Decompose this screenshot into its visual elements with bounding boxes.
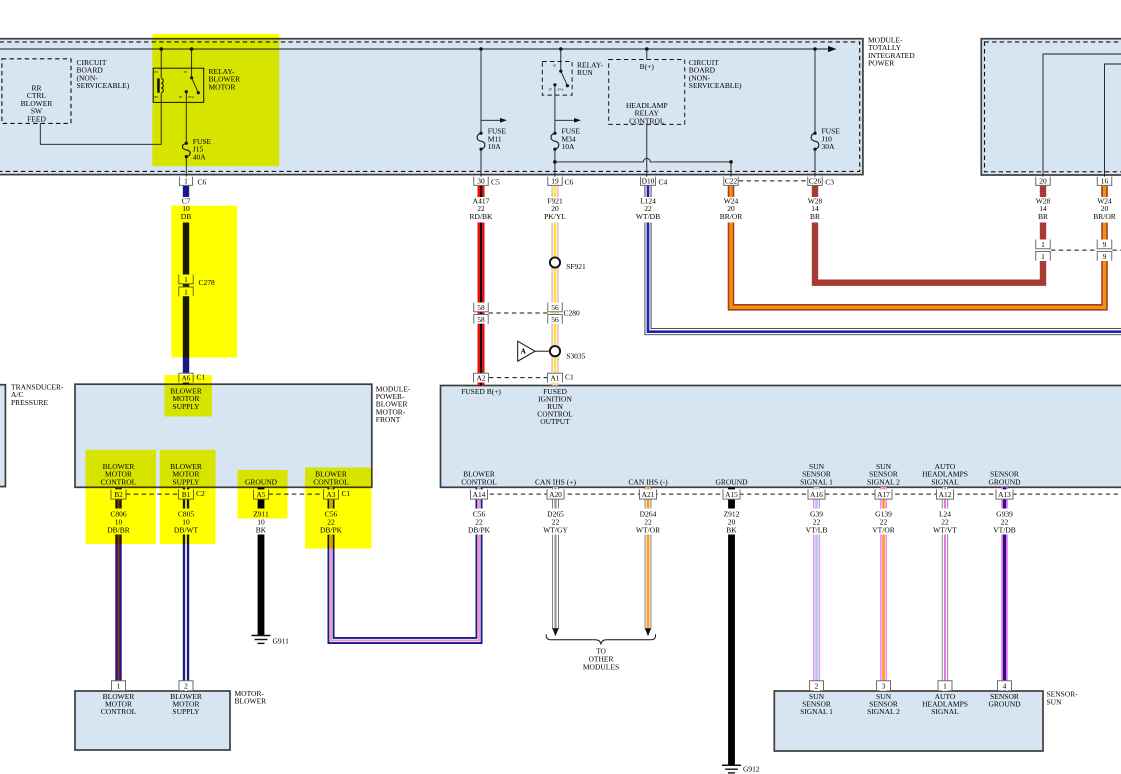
pin 30 of C5 <box>474 177 489 186</box>
wire W24 20 BR/OR right stub and label <box>1093 184 1116 221</box>
pin 87 relay K2 <box>549 88 553 92</box>
node RR CTRL BLOWER SW FEED <box>21 84 53 124</box>
node SUN SENSOR SIGNAL 2 (sensor) <box>867 692 900 716</box>
svg-text:10A: 10A <box>488 142 502 151</box>
headlamp relay control dashed box <box>609 60 685 125</box>
svg-text:B(+): B(+) <box>640 62 655 71</box>
wire L124 22 WT/DB stub and label <box>636 184 660 221</box>
label HEADLAMP RELAY CONTROL <box>626 101 668 125</box>
value FUSE J10 30A <box>822 127 841 151</box>
svg-text:POWER: POWER <box>868 59 894 68</box>
pin 20 TIPM2 <box>1036 177 1051 186</box>
wire W28 14 BR left stub and label <box>808 184 823 221</box>
svg-text:WT/DB: WT/DB <box>636 212 660 221</box>
wire G139 22 VT/OR stub and label <box>872 487 895 534</box>
svg-text:CONTROL: CONTROL <box>101 707 137 716</box>
wire relay coil return to RR CTRL feed <box>40 93 161 144</box>
dashed link module M3 bottom pins <box>474 493 1121 495</box>
svg-text:30: 30 <box>553 64 557 68</box>
wire F921 20 PK/YL stub and label <box>544 184 566 221</box>
node BLOWER MOTOR SUPPLY (motor) <box>170 692 202 716</box>
highlight blower control A3 <box>305 468 372 549</box>
connector C278 pin 1 lower <box>179 287 194 296</box>
pin 2 sensor-sun <box>810 681 824 691</box>
pin A15 module M3 <box>723 489 740 499</box>
svg-text:MODULES: MODULES <box>583 663 619 672</box>
node bus tap fuse M11 <box>479 47 483 51</box>
wire Z912 run to ground G912 <box>728 535 735 765</box>
svg-text:A15: A15 <box>725 490 738 499</box>
node AUTO HEADLAMPS SIGNAL (sensor) <box>922 692 968 716</box>
svg-text:C26: C26 <box>809 177 822 186</box>
connector C280 pin 56 lower <box>548 315 563 324</box>
module M3 control-head body outline <box>441 386 1121 488</box>
node BLOWER MOTOR SUPPLY (M2 bottom) <box>170 462 202 486</box>
wire Z911 run to ground G911 <box>258 535 265 636</box>
wire D264 22 WT/OR stub and label <box>636 487 660 534</box>
svg-text:58: 58 <box>477 315 485 324</box>
wire D265 22 WT/GY stub and label <box>543 487 568 534</box>
node BLOWER MOTOR SUPPLY (M2 top) <box>170 386 202 410</box>
svg-text:58: 58 <box>477 303 485 312</box>
svg-text:WT/VT: WT/VT <box>933 526 957 535</box>
node BLOWER CONTROL (M2) <box>313 470 349 487</box>
node junction fuse M34 branch <box>553 160 557 164</box>
svg-text:C1: C1 <box>565 373 574 382</box>
svg-text:C5: C5 <box>491 178 500 187</box>
highlight wire C7 <box>171 206 237 358</box>
svg-text:87A: 87A <box>558 88 564 92</box>
wire G939 22 VT/DB stub and label <box>993 487 1016 534</box>
node GROUND (M2) <box>245 477 278 486</box>
node BLOWER MOTOR CONTROL (motor) <box>101 692 137 716</box>
wire W28 right short segment to connector pin 1 <box>1040 223 1046 241</box>
svg-text:G912: G912 <box>743 764 760 773</box>
wire branch M34 to C22 with hop over headlamp line <box>555 158 731 161</box>
svg-text:CONTROL: CONTROL <box>629 116 665 125</box>
node bus tap relay switch <box>190 47 194 51</box>
pin D10 of C4 <box>641 177 656 186</box>
pin A1 of C1 module M3 <box>548 373 563 382</box>
svg-text:SERVICEABLE): SERVICEABLE) <box>689 81 742 90</box>
svg-text:FEED: FEED <box>27 114 46 123</box>
node CAN IHS (-) (M3) <box>628 477 668 486</box>
module SENSOR-SUN outline <box>774 691 1043 751</box>
wire F921 run through splices to pin A1 <box>552 223 559 386</box>
svg-text:56: 56 <box>551 303 559 312</box>
wire relay switch feed from bus <box>191 49 193 78</box>
svg-text:FRONT: FRONT <box>376 415 401 424</box>
pin A13 module M3 <box>996 489 1013 499</box>
label RELAY-BLOWER MOTOR <box>209 67 241 91</box>
wire C805 10 DB/WT stub and label <box>174 487 199 534</box>
svg-text:BR: BR <box>1038 212 1048 221</box>
label C1 at A1 <box>565 373 574 382</box>
wire C56 22 DB/PK stub and label (A14 side) <box>468 487 491 534</box>
wire relay coil feed from bus <box>160 49 162 78</box>
svg-text:PK/YL: PK/YL <box>544 212 566 221</box>
fuse J15 40A symbol <box>185 142 188 145</box>
label C1 at A3 <box>342 489 351 498</box>
dashed link B2 to B1 <box>126 493 179 495</box>
node SENSOR GROUND (sensor) <box>988 692 1021 709</box>
wire C56 U-run from A3 to A14 <box>331 535 479 641</box>
highlight blower motor control B2 <box>86 450 157 544</box>
wire L24 run to sun sensor pin 1 <box>942 535 948 692</box>
connector pin 9 lower <box>1097 252 1112 261</box>
svg-text:CONTROL: CONTROL <box>461 477 497 486</box>
svg-text:3: 3 <box>882 681 886 690</box>
ground G912 symbol <box>722 764 741 766</box>
highlight ground A5 <box>238 470 288 519</box>
pin 85 relay K1 <box>155 70 159 74</box>
pin A17 module M3 <box>875 489 892 499</box>
svg-text:A1: A1 <box>550 374 559 383</box>
pin A12 module M3 <box>937 489 954 499</box>
pin 2 motor-blower <box>179 681 193 691</box>
dashed link C22 to C26 <box>739 180 807 182</box>
svg-text:C4: C4 <box>659 178 668 187</box>
label G912 <box>743 764 760 773</box>
wire D264 run to other modules <box>645 535 652 630</box>
svg-text:RUN: RUN <box>577 68 593 77</box>
svg-text:A14: A14 <box>473 490 486 499</box>
wire Z912 20 BK stub and label <box>724 487 740 534</box>
pin 87A relay K2 <box>558 88 564 92</box>
label MOTOR-BLOWER <box>235 689 267 706</box>
pin A20 module M3 <box>547 489 564 499</box>
node FUSED B(+) (M3) <box>461 387 501 396</box>
label TO OTHER MODULES <box>583 647 619 672</box>
wire headlamp control output to pin C4-D10 <box>646 124 648 179</box>
svg-text:VT/DB: VT/DB <box>993 526 1016 535</box>
pin A21 module M3 <box>640 489 657 499</box>
svg-text:BLOWER: BLOWER <box>235 697 267 706</box>
svg-text:WT/OR: WT/OR <box>636 526 660 535</box>
svg-text:A12: A12 <box>939 490 952 499</box>
pin 87 relay K1 <box>179 95 183 99</box>
pin 1 motor-blower <box>112 681 126 691</box>
node BLOWER CONTROL (M3) <box>461 470 497 487</box>
svg-text:1: 1 <box>184 177 188 186</box>
wire C7 10 DB stub and label <box>181 184 191 221</box>
label RELAY-RUN <box>577 61 603 78</box>
pin A5 module M2 <box>254 489 269 499</box>
svg-text:GROUND: GROUND <box>988 699 1021 708</box>
pin A2 module M3 <box>474 373 489 382</box>
label C280 <box>564 309 581 318</box>
relay K1 RELAY-BLOWER MOTOR body <box>153 68 204 102</box>
wire bus B+ inside TIPM <box>0 48 828 50</box>
svg-text:C280: C280 <box>564 309 581 318</box>
label C6 mid <box>565 178 574 187</box>
svg-text:SUPPLY: SUPPLY <box>172 707 200 716</box>
pin C22 <box>724 177 739 186</box>
module TRANSDUCER-A/C PRESSURE outline <box>0 385 5 487</box>
value FUSE J15 40A <box>193 137 212 161</box>
wire D265 run to other modules <box>552 535 559 630</box>
connector C280 pin 58 lower <box>474 315 489 324</box>
svg-text:FUSED B(+): FUSED B(+) <box>461 387 501 396</box>
label TRANSDUCER-A/C PRESSURE <box>11 383 64 407</box>
label G911 <box>273 636 290 645</box>
node bus tap fuse J10 <box>813 47 817 51</box>
wire L124 run right to off-page <box>648 223 1121 332</box>
svg-text:BR: BR <box>810 212 820 221</box>
brace to other modules <box>546 634 655 643</box>
svg-text:CAN IHS (+): CAN IHS (+) <box>535 477 576 486</box>
wire bus to relay-run <box>560 49 562 71</box>
svg-text:56: 56 <box>551 315 559 324</box>
svg-text:BK: BK <box>256 526 267 535</box>
ground G911 symbol <box>252 635 271 637</box>
svg-text:9: 9 <box>1103 240 1107 249</box>
label C6 top-left <box>198 178 207 187</box>
link symbol A to splice S3035 <box>535 350 550 352</box>
highlight blower motor supply B1 <box>160 450 216 544</box>
dashed link A5 to A3 <box>269 493 324 495</box>
svg-text:G911: G911 <box>273 636 290 645</box>
node B(+) <box>640 62 655 71</box>
svg-text:30: 30 <box>477 177 485 186</box>
svg-text:9: 9 <box>1103 252 1107 261</box>
node SENSOR GROUND (M3) <box>988 470 1021 487</box>
wire G39 run to sun sensor pin 2 <box>813 535 820 692</box>
svg-text:C3: C3 <box>825 178 834 187</box>
pin 4 sensor-sun <box>998 681 1012 691</box>
wire junction to pin C22 <box>730 162 732 179</box>
label C2 at B1 <box>196 489 205 498</box>
wire C806 run to blower motor pin 1 <box>115 535 121 692</box>
arrow branch at fuse M11 feed <box>481 119 500 121</box>
highlight blower motor supply A6 <box>165 375 213 417</box>
wire W24 BR/OR U-run from C22 to inline connector <box>731 223 1105 308</box>
module M2 MODULE-POWER-BLOWER MOTOR-FRONT outline <box>75 384 372 487</box>
svg-text:SIGNAL 2: SIGNAL 2 <box>867 707 900 716</box>
module TIPM second connector body outline <box>981 39 1121 175</box>
svg-text:S3035: S3035 <box>566 352 585 361</box>
arrow branch at fuse M34 feed <box>555 119 574 121</box>
wire TIPM2 internal to pin 16 <box>1105 64 1121 179</box>
svg-text:PRESSURE: PRESSURE <box>11 398 49 407</box>
svg-text:87: 87 <box>549 88 553 92</box>
svg-text:10A: 10A <box>562 142 576 151</box>
node bus tap relay-run <box>559 47 563 51</box>
svg-text:20: 20 <box>1039 177 1047 186</box>
wire W28 14 BR right stub and label <box>1036 184 1051 221</box>
svg-text:D10: D10 <box>642 177 655 186</box>
svg-text:C6: C6 <box>198 178 207 187</box>
connector C280 pin 58 upper <box>474 303 489 312</box>
node CAN IHS (+) (M3) <box>535 477 576 486</box>
svg-text:BR/OR: BR/OR <box>720 212 743 221</box>
splice SF921 <box>550 257 560 267</box>
label S3035 <box>566 352 585 361</box>
svg-text:OUTPUT: OUTPUT <box>540 417 570 426</box>
wire G939 run to sun sensor pin 4 <box>1001 535 1008 692</box>
value FUSE M11 10A <box>488 127 507 151</box>
module TIPM (Totally Integrated Power Module) outline <box>0 39 863 175</box>
relay K2 RELAY-RUN dashed body <box>542 62 572 96</box>
wire W28 BR U-run from C26 to inline connector <box>815 223 1043 283</box>
wire bus to fuse M11 <box>480 49 482 133</box>
label MODULE-TOTALLY INTEGRATED POWER <box>868 36 915 68</box>
node AUTO HEADLAMPS SIGNAL (M3) <box>922 462 968 486</box>
wire A417 22 RD/BK stub and label <box>470 184 494 221</box>
wire fuse M11 to pin C5-30 <box>480 149 482 179</box>
label C4 <box>659 178 668 187</box>
fuse J10 30A symbol <box>813 132 816 135</box>
node SUN SENSOR SIGNAL 2 (M3) <box>867 462 900 486</box>
wire G139 run to sun sensor pin 3 <box>880 535 887 692</box>
svg-text:SF921: SF921 <box>566 262 586 271</box>
pin 19 of C6 <box>548 177 563 186</box>
circuit board (non-serviceable) left dashed box <box>2 59 71 124</box>
value FUSE M34 10A <box>562 127 581 151</box>
fuse M34 10A symbol <box>553 132 556 135</box>
svg-text:30A: 30A <box>822 142 836 151</box>
label C1 at A6 <box>197 373 206 382</box>
node bus tap headlamp relay control <box>645 47 649 51</box>
label MODULE-POWER-BLOWER MOTOR-FRONT <box>376 384 411 424</box>
wire fuse J10 to pin C3-C26 <box>814 149 816 179</box>
label CIRCUIT BOARD (NON-SERVICEABLE) right <box>689 58 742 90</box>
svg-text:1: 1 <box>1041 252 1045 261</box>
pin 30 relay K1 <box>183 70 187 74</box>
label C5 <box>491 178 500 187</box>
node SUN SENSOR SIGNAL 1 (sensor) <box>800 692 833 716</box>
svg-text:A21: A21 <box>642 490 655 499</box>
wire G39 22 VT/LB stub and label <box>806 487 828 534</box>
label CIRCUIT BOARD (NON-SERVICEABLE) left <box>77 58 130 90</box>
pin A6 of C1 module M2 <box>179 373 193 382</box>
pin 30 relay K2 <box>553 64 557 68</box>
pin 1 sensor-sun <box>938 681 952 691</box>
svg-text:2: 2 <box>184 681 188 690</box>
module MOTOR-BLOWER outline <box>75 691 230 750</box>
svg-text:A16: A16 <box>810 490 823 499</box>
svg-text:VT/OR: VT/OR <box>872 526 895 535</box>
fuse M11 10A symbol <box>479 132 482 135</box>
highlight relay blower motor <box>152 34 279 166</box>
relay K1 coil <box>157 78 160 92</box>
wire W24 right short segment to connector pin 9 <box>1101 223 1108 241</box>
svg-text:A13: A13 <box>998 490 1011 499</box>
wire fuse M34 to pin C6-19 <box>554 149 556 179</box>
splice S3035 <box>550 346 560 356</box>
svg-text:GROUND: GROUND <box>715 477 748 486</box>
wire relay 87 output to fuse J15 <box>185 92 187 144</box>
pin 16 TIPM2 <box>1097 177 1112 186</box>
svg-text:A: A <box>521 346 527 355</box>
svg-text:GROUND: GROUND <box>988 477 1021 486</box>
svg-text:2: 2 <box>815 681 819 690</box>
pin 87A relay K1 <box>188 95 194 99</box>
svg-text:19: 19 <box>551 177 559 186</box>
wire A417 run to connector C280 and pin A2 <box>478 223 485 386</box>
svg-text:SIGNAL: SIGNAL <box>931 477 959 486</box>
pin 3 sensor-sun <box>877 681 891 691</box>
pin A14 module M3 <box>471 489 488 499</box>
svg-text:1: 1 <box>117 681 121 690</box>
pin B1 of C2 module M2 <box>179 489 194 499</box>
node BLOWER MOTOR CONTROL (M2) <box>101 462 137 486</box>
dashed link A2 to A1 <box>489 377 547 379</box>
label C278 <box>199 278 216 287</box>
wire C806 10 DB/BR stub and label <box>107 487 130 534</box>
svg-text:DB/PK: DB/PK <box>468 526 491 535</box>
connector C280 pin 56 upper <box>548 303 563 312</box>
svg-text:VT/LB: VT/LB <box>806 526 828 535</box>
wire C56 22 DB/PK stub and label (A3 side) <box>320 487 343 534</box>
svg-text:BK: BK <box>726 526 737 535</box>
label SF921 <box>566 262 586 271</box>
wire relay-run 87 to fuse M34 <box>554 85 556 133</box>
wire Z911 10 BK stub and label <box>253 487 269 534</box>
svg-text:A17: A17 <box>877 490 890 499</box>
connector pin 1 lower <box>1036 252 1051 261</box>
svg-text:SUN: SUN <box>1047 697 1063 706</box>
pin 1 of C6 (fuse J15 output) <box>180 177 193 186</box>
wire W24 20 BR/OR left stub and label <box>720 184 743 221</box>
wire C805 run to blower motor pin 2 <box>183 535 189 692</box>
wire fuse J15 to pin C6-1 <box>185 157 187 179</box>
svg-text:C22: C22 <box>725 177 738 186</box>
dashed link connector 1 to 9 <box>1051 249 1097 251</box>
svg-text:SIGNAL 2: SIGNAL 2 <box>867 477 900 486</box>
node junction C22 drop <box>729 160 733 164</box>
wire bus to headlamp relay control B+ <box>646 49 648 60</box>
svg-text:4: 4 <box>1003 681 1007 690</box>
svg-text:SERVICEABLE): SERVICEABLE) <box>77 81 130 90</box>
relay K1 switch blade pin30 to pin87A <box>190 76 193 79</box>
relay K2 switch blade <box>559 70 562 73</box>
svg-text:SIGNAL 1: SIGNAL 1 <box>800 477 833 486</box>
svg-text:CAN IHS (-): CAN IHS (-) <box>628 477 668 486</box>
svg-text:RD/BK: RD/BK <box>470 212 494 221</box>
pin A16 module M3 <box>808 489 825 499</box>
svg-text:A20: A20 <box>549 490 562 499</box>
node FUSED IGNITION RUN CONTROL OUTPUT (M3) <box>537 387 573 426</box>
connector pin 9 upper <box>1097 240 1112 249</box>
svg-text:A2: A2 <box>476 374 485 383</box>
svg-text:16: 16 <box>1101 177 1109 186</box>
pin A3 of C1 module M2 <box>324 489 339 499</box>
svg-text:WT/GY: WT/GY <box>543 526 568 535</box>
node bus tap relay coil <box>159 47 163 51</box>
wire TIPM2 internal to pin 20 <box>1043 54 1121 179</box>
wire L24 22 WT/VT stub and label <box>933 487 957 534</box>
pin B2 module M2 <box>111 489 126 499</box>
svg-text:1: 1 <box>1041 240 1045 249</box>
label C3 <box>825 178 834 187</box>
connector pin 1 upper <box>1036 240 1051 249</box>
label SENSOR-SUN <box>1047 690 1079 707</box>
node SUN SENSOR SIGNAL 1 (M3) <box>800 462 833 486</box>
node GROUND (M3) <box>715 477 748 486</box>
svg-text:SIGNAL 1: SIGNAL 1 <box>800 707 833 716</box>
wire bus to fuse J10 <box>814 49 816 133</box>
svg-text:BR/OR: BR/OR <box>1093 212 1116 221</box>
svg-text:SIGNAL: SIGNAL <box>931 707 959 716</box>
dashed link C280 <box>489 312 548 314</box>
svg-text:1: 1 <box>943 681 947 690</box>
svg-text:C6: C6 <box>565 178 574 187</box>
pin C26 of C3 <box>808 177 823 186</box>
connector C278 pin 1 upper <box>179 275 194 284</box>
pin 86 relay K1 <box>155 95 159 99</box>
wire C7 run to connector C278 and pin A6 <box>183 223 189 385</box>
